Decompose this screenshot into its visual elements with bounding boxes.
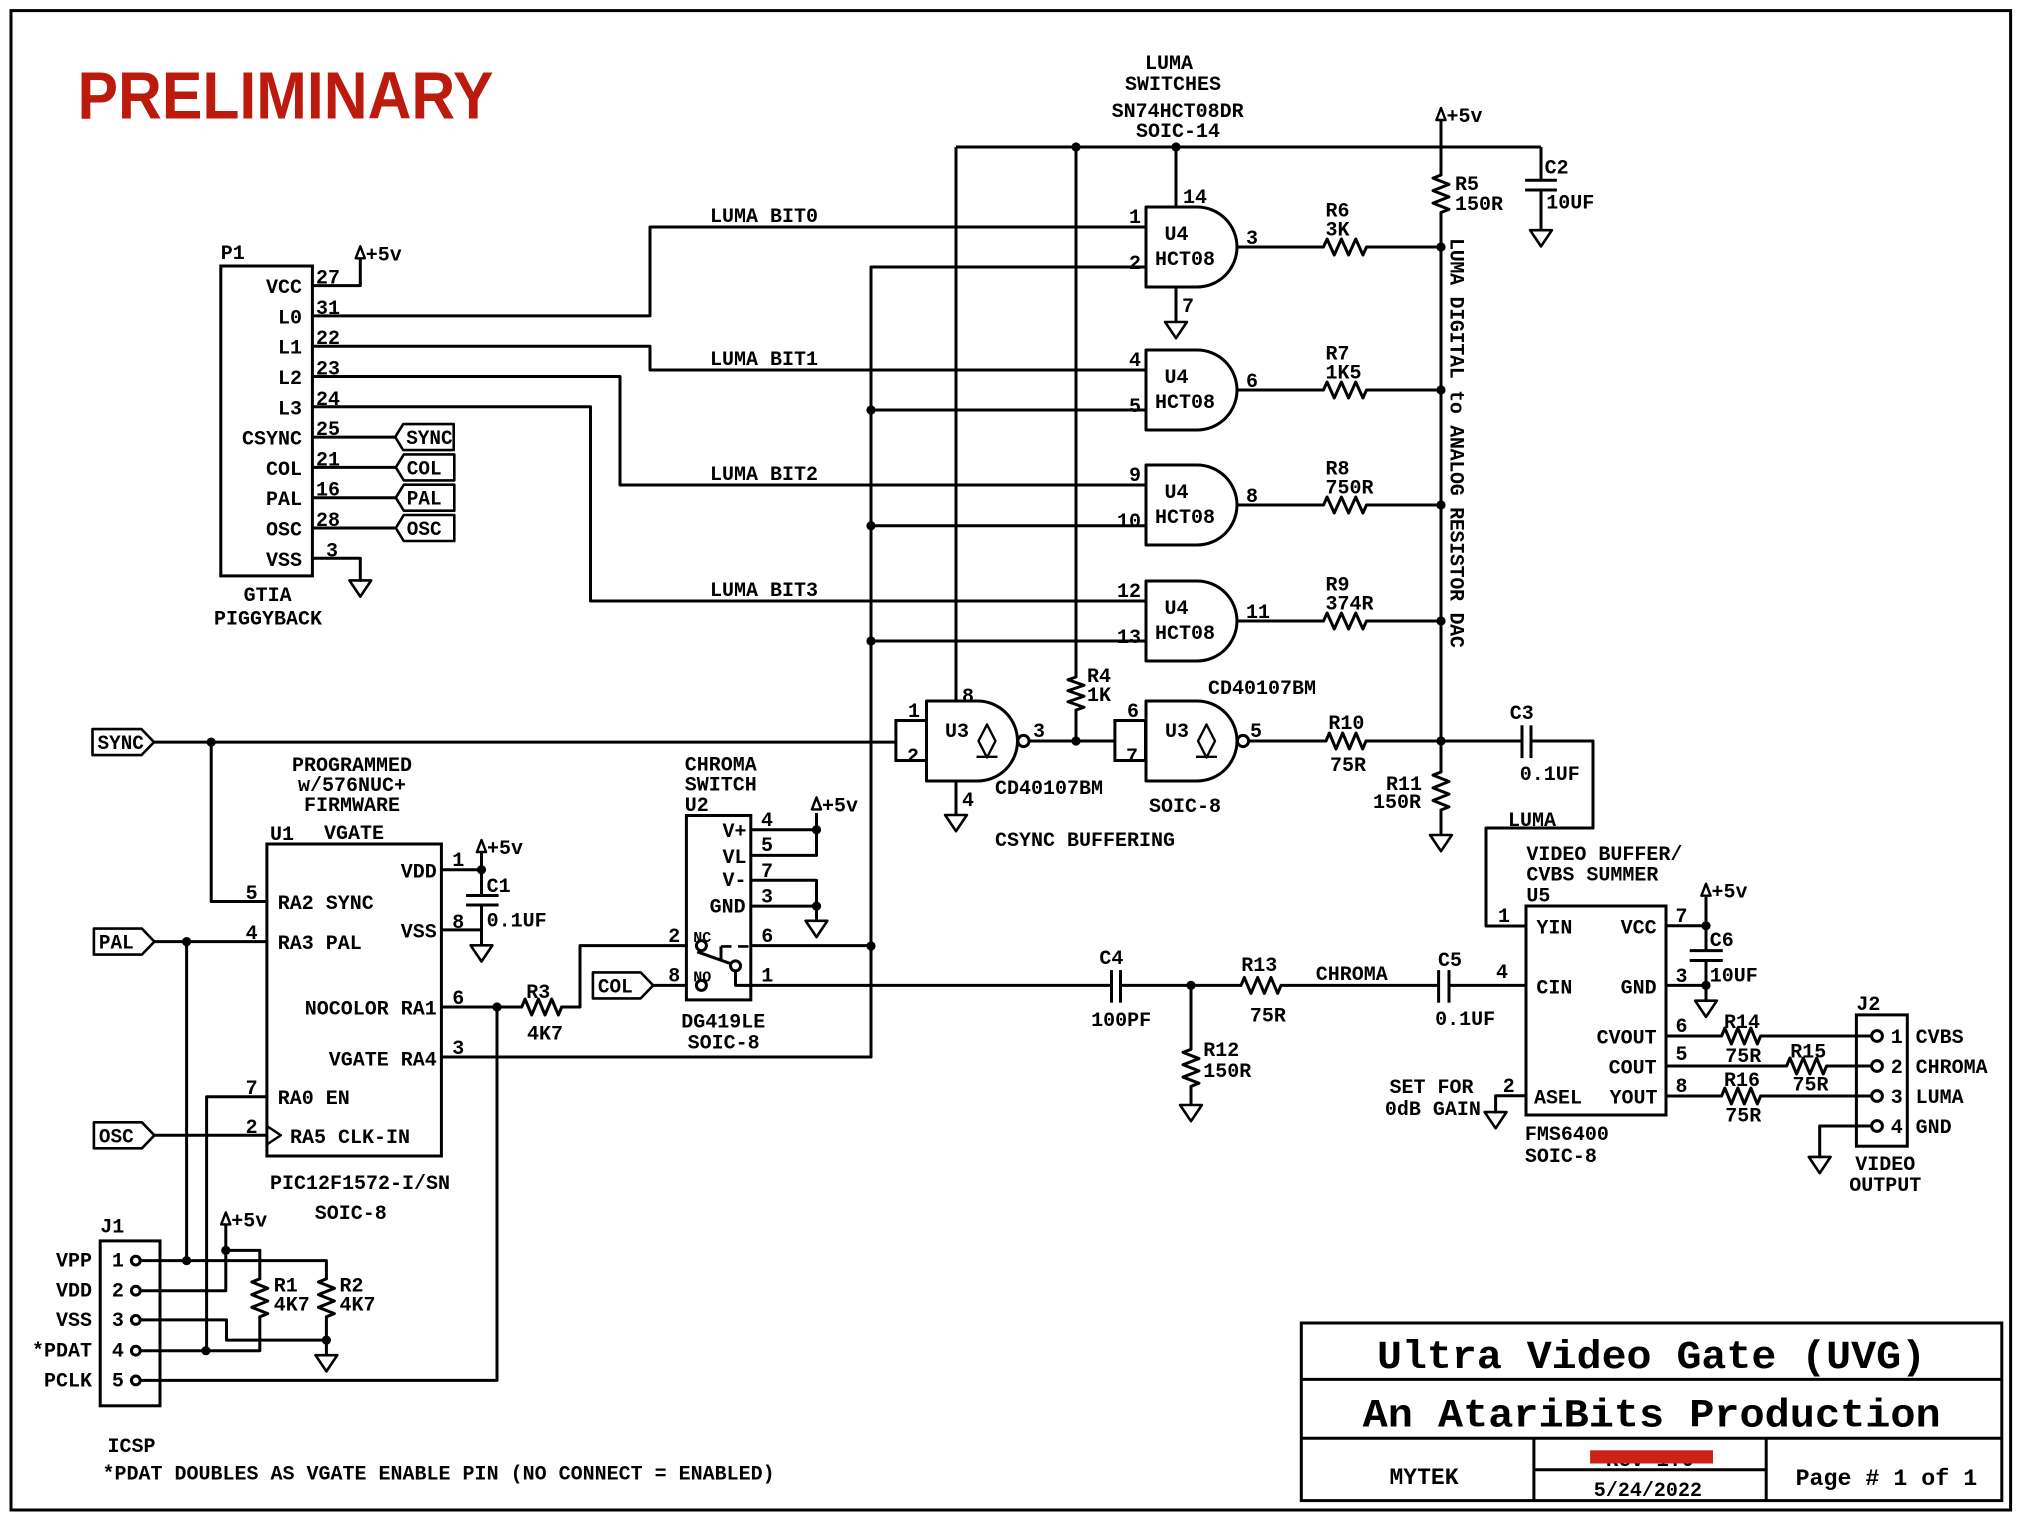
AND gate U4 D (HCT08) bbox=[1117, 581, 1270, 661]
resistor R3 4K7 bbox=[522, 982, 563, 1047]
svg-text:+5v: +5v bbox=[1712, 882, 1748, 905]
svg-text:ICSP: ICSP bbox=[108, 1436, 156, 1459]
svg-text:SET FOR: SET FOR bbox=[1390, 1077, 1474, 1100]
+5v symbol on top rail bbox=[1436, 106, 1482, 175]
ground at J2 bbox=[1809, 1157, 1831, 1173]
wire R3 to U2 pin 2 NC bbox=[562, 946, 687, 1007]
svg-text:SWITCH: SWITCH bbox=[685, 774, 757, 797]
svg-text:C6: C6 bbox=[1710, 930, 1734, 953]
flag PAL input bbox=[94, 929, 154, 956]
svg-text:5: 5 bbox=[1250, 721, 1262, 744]
svg-text:0.1UF: 0.1UF bbox=[1435, 1009, 1495, 1032]
svg-text:L3: L3 bbox=[278, 398, 302, 421]
svg-text:GND: GND bbox=[1916, 1117, 1952, 1140]
wire U4 pin 7 to ground bbox=[1176, 287, 1194, 322]
junction U5 VCC / C6 bbox=[1701, 921, 1710, 930]
connector P1 (GTIA piggyback) bbox=[214, 243, 340, 632]
svg-text:6: 6 bbox=[1127, 701, 1139, 724]
wire U4 output to R6 bbox=[1237, 246, 1324, 249]
svg-text:10UF: 10UF bbox=[1546, 192, 1594, 215]
svg-text:HCT08: HCT08 bbox=[1155, 507, 1215, 530]
svg-text:4: 4 bbox=[962, 790, 974, 813]
wire U4 pin 14 power bbox=[1176, 147, 1207, 210]
svg-text:SOIC-8: SOIC-8 bbox=[688, 1033, 760, 1056]
flag COL at P1 pin 21 bbox=[312, 454, 454, 481]
svg-text:CD40107BM: CD40107BM bbox=[995, 778, 1103, 801]
wire LUMA DAC bus vertical bbox=[1440, 246, 1443, 741]
wire U1 RA1 pin 6 to R3 bbox=[441, 1006, 521, 1009]
svg-text:Ultra Video Gate (UVG): Ultra Video Gate (UVG) bbox=[1377, 1336, 1926, 1381]
wire U2 pin 3 GND bbox=[751, 905, 817, 908]
svg-text:1: 1 bbox=[1891, 1027, 1903, 1050]
svg-text:GND: GND bbox=[1621, 978, 1657, 1001]
resistor R1 4K7 bbox=[252, 1276, 310, 1318]
title text An AtariBits Production bbox=[1363, 1395, 1941, 1440]
AND gate U4 C (HCT08) bbox=[1117, 465, 1258, 545]
NAND buffer U3 A body bbox=[927, 701, 1030, 781]
svg-text:5: 5 bbox=[1129, 396, 1141, 419]
svg-text:10UF: 10UF bbox=[1710, 966, 1758, 989]
svg-text:R3: R3 bbox=[526, 982, 550, 1005]
svg-text:RA0 EN: RA0 EN bbox=[278, 1088, 350, 1111]
wire P1 VCC pin 27 to +5v bbox=[312, 259, 360, 286]
note *PDAT DOUBLES AS VGATE ENABLE PIN bbox=[103, 1464, 775, 1487]
svg-text:9: 9 bbox=[1129, 465, 1141, 488]
svg-text:CVBS: CVBS bbox=[1916, 1027, 1964, 1050]
flag COL input bbox=[593, 972, 653, 999]
svg-text:PAL: PAL bbox=[407, 489, 442, 512]
wire +5v to R1 top bbox=[226, 1250, 260, 1278]
IC U5 FMS6400 body bbox=[1498, 844, 1688, 1169]
wire COL flag to U2 pin 8 NO bbox=[653, 984, 686, 987]
resistor R5 150R bbox=[1433, 174, 1503, 246]
svg-text:Page # 1 of 1: Page # 1 of 1 bbox=[1796, 1466, 1978, 1492]
svg-text:LUMA BIT0: LUMA BIT0 bbox=[710, 206, 818, 229]
capacitor C4 100PF bbox=[1091, 948, 1151, 1033]
wire VGATE column (RA4 to U4 B-inputs and U2 pin 6) bbox=[871, 267, 1146, 1057]
svg-text:4: 4 bbox=[1496, 962, 1508, 985]
svg-text:+5v: +5v bbox=[487, 838, 523, 861]
junction VPP / PAL column bbox=[182, 1256, 191, 1265]
svg-text:OUTPUT: OUTPUT bbox=[1849, 1175, 1921, 1198]
svg-text:4K7: 4K7 bbox=[274, 1295, 310, 1318]
wire PAL to U1 RA3 pin 4 bbox=[154, 940, 267, 943]
svg-text:3: 3 bbox=[1033, 721, 1045, 744]
svg-text:CVBS SUMMER: CVBS SUMMER bbox=[1526, 865, 1658, 888]
capacitor C2 10UF bbox=[1525, 147, 1594, 230]
svg-text:31: 31 bbox=[316, 298, 340, 321]
svg-text:75R: 75R bbox=[1250, 1006, 1286, 1029]
junction VGATE at U4C pin 10 bbox=[866, 521, 875, 530]
svg-text:2: 2 bbox=[907, 746, 919, 769]
svg-text:VCC: VCC bbox=[266, 277, 302, 300]
AND gate U4 B (HCT08) bbox=[1129, 350, 1258, 430]
+5v symbol at U2 bbox=[812, 795, 858, 818]
svg-text:PIC12F1572-I/SN: PIC12F1572-I/SN bbox=[270, 1173, 450, 1196]
svg-text:V+: V+ bbox=[722, 821, 746, 844]
svg-text:5: 5 bbox=[112, 1370, 124, 1393]
svg-text:27: 27 bbox=[316, 268, 340, 291]
wire LUMA BIT1 (P1 L1 pin 22 to U4B pin 4) bbox=[312, 346, 1146, 372]
junction U2 V- / GND bbox=[812, 902, 821, 911]
wire PAL branch down to J1 VPP bbox=[185, 942, 188, 1261]
junction DAC bus row 1 bbox=[1436, 242, 1445, 251]
resistor R7 1K5 bbox=[1324, 344, 1367, 398]
+5v symbol at P1 VCC bbox=[356, 244, 402, 267]
flag OSC input bbox=[94, 1122, 154, 1149]
wire U2 pin 4 V+ to +5v bbox=[751, 813, 817, 830]
svg-text:2: 2 bbox=[668, 926, 680, 949]
wire OSC to U1 RA5 pin 2 bbox=[154, 1134, 267, 1137]
junction PAL/VPP branch bbox=[182, 937, 191, 946]
svg-text:3: 3 bbox=[326, 540, 338, 563]
svg-text:MYTEK: MYTEK bbox=[1389, 1465, 1458, 1491]
wire U5 VCC pin 7 to +5v bbox=[1666, 897, 1706, 926]
svg-text:L1: L1 bbox=[278, 338, 302, 361]
capacitor C5 0.1UF bbox=[1435, 950, 1495, 1032]
svg-text:PCLK: PCLK bbox=[44, 1370, 92, 1393]
svg-text:0dB GAIN: 0dB GAIN bbox=[1385, 1099, 1481, 1122]
label CD40107BM for U3 A bbox=[995, 778, 1103, 801]
wire U2 pin 6 to VGATE column bbox=[751, 944, 871, 947]
svg-text:FMS6400: FMS6400 bbox=[1525, 1124, 1609, 1147]
svg-text:5: 5 bbox=[1676, 1044, 1688, 1067]
connector J2 video output bbox=[1856, 994, 1987, 1146]
svg-text:R13: R13 bbox=[1241, 955, 1277, 978]
NAND buffer U3 B input box pins 6,7 bbox=[1115, 701, 1146, 769]
svg-text:GND: GND bbox=[710, 897, 746, 920]
wire R6 to DAC bus bbox=[1367, 246, 1442, 249]
svg-text:VSS: VSS bbox=[56, 1310, 92, 1333]
svg-text:CHROMA: CHROMA bbox=[1916, 1057, 1988, 1080]
svg-text:C5: C5 bbox=[1438, 950, 1462, 973]
wire U3A output to U3B input bbox=[1029, 721, 1115, 744]
svg-text:DG419LE: DG419LE bbox=[681, 1012, 765, 1035]
svg-text:SOIC-8: SOIC-8 bbox=[1149, 796, 1221, 819]
svg-text:1K: 1K bbox=[1087, 685, 1111, 708]
capacitor C3 0.1UF bbox=[1441, 703, 1580, 787]
svg-text:LUMA BIT1: LUMA BIT1 bbox=[710, 349, 818, 372]
svg-text:150R: 150R bbox=[1373, 792, 1421, 815]
+5v symbol at U5 bbox=[1701, 882, 1747, 905]
svg-text:VCC: VCC bbox=[1621, 918, 1657, 941]
AND gate U4 A (HCT08) bbox=[1129, 207, 1258, 287]
redacted revision bar bbox=[1590, 1450, 1713, 1473]
svg-text:R15: R15 bbox=[1790, 1042, 1826, 1065]
ground below R2 bbox=[316, 1340, 338, 1371]
wire LUMA BIT0 (P1 L0 pin 31 to U4A pin 1) bbox=[312, 206, 1146, 316]
svg-text:24: 24 bbox=[316, 389, 340, 412]
svg-text:R10: R10 bbox=[1328, 713, 1364, 736]
svg-text:+5v: +5v bbox=[1447, 106, 1483, 129]
svg-text:U4: U4 bbox=[1164, 482, 1188, 505]
wire J1 VSS to ground rail bbox=[140, 1320, 326, 1340]
svg-text:7: 7 bbox=[1126, 746, 1138, 769]
svg-text:2: 2 bbox=[112, 1281, 124, 1304]
svg-text:CVOUT: CVOUT bbox=[1597, 1028, 1657, 1051]
resistor R2 4K7 bbox=[318, 1276, 375, 1318]
svg-text:RA3 PAL: RA3 PAL bbox=[278, 933, 362, 956]
+5v symbol at U1 VDD bbox=[477, 838, 523, 861]
svg-text:COL: COL bbox=[598, 976, 633, 999]
svg-text:4: 4 bbox=[112, 1341, 124, 1364]
title text date 5/24/2022 bbox=[1594, 1480, 1702, 1503]
junction RA1 / PCLK branch bbox=[492, 1002, 501, 1011]
wire U2 pin 1 to C4 bbox=[751, 984, 1112, 987]
wire U1 RA0 pin 7 to J1 *PDAT bbox=[207, 1097, 267, 1351]
ground at U1 VSS bbox=[471, 945, 493, 961]
svg-text:LUMA: LUMA bbox=[1916, 1087, 1964, 1110]
svg-text:PIGGYBACK: PIGGYBACK bbox=[214, 609, 322, 632]
title text Ultra Video Gate (UVG) bbox=[1377, 1336, 1926, 1381]
wire U5 COUT pin 5 to R15 bbox=[1666, 1065, 1787, 1068]
wire J1 VPP to R2 bbox=[140, 1261, 326, 1279]
svg-text:CIN: CIN bbox=[1536, 978, 1572, 1001]
svg-text:4: 4 bbox=[1891, 1117, 1903, 1140]
svg-text:VDD: VDD bbox=[401, 861, 437, 884]
svg-text:SOIC-8: SOIC-8 bbox=[1525, 1146, 1597, 1169]
svg-text:SWITCHES: SWITCHES bbox=[1125, 74, 1221, 97]
svg-text:VPP: VPP bbox=[56, 1251, 92, 1274]
svg-text:22: 22 bbox=[316, 328, 340, 351]
wire +5v top rail bbox=[956, 146, 1541, 149]
wire R2 bottom to ground junction bbox=[325, 1317, 328, 1340]
title text MYTEK bbox=[1389, 1465, 1458, 1491]
svg-text:PAL: PAL bbox=[266, 489, 302, 512]
svg-text:HCT08: HCT08 bbox=[1155, 249, 1215, 272]
label VIDEO OUTPUT bbox=[1849, 1154, 1921, 1198]
wire U1 RA4 pin 3 to VGATE column bbox=[441, 1056, 871, 1059]
svg-text:J2: J2 bbox=[1856, 994, 1880, 1017]
wire LUMA BIT3 (P1 L3 pin 24 to U4D pin 12) bbox=[312, 407, 1146, 603]
junction ground rail at R2 bbox=[322, 1336, 331, 1345]
svg-text:LUMA DIGITAL to ANALOG RESISTO: LUMA DIGITAL to ANALOG RESISTOR DAC bbox=[1444, 238, 1467, 648]
svg-text:150R: 150R bbox=[1203, 1061, 1251, 1084]
wire U5 YOUT pin 8 to R16 bbox=[1666, 1095, 1722, 1098]
svg-text:OSC: OSC bbox=[407, 519, 442, 542]
svg-text:4K7: 4K7 bbox=[527, 1024, 563, 1047]
wire U4 output to R7 bbox=[1237, 389, 1324, 392]
svg-text:3K: 3K bbox=[1326, 219, 1350, 242]
resistor R15 75R bbox=[1787, 1042, 1829, 1098]
wire U4 output to R8 bbox=[1237, 504, 1324, 507]
wire U3B output pin 5 to R10 bbox=[1249, 721, 1326, 744]
svg-text:NOCOLOR RA1: NOCOLOR RA1 bbox=[305, 999, 437, 1022]
svg-text:13: 13 bbox=[1117, 627, 1141, 650]
svg-text:CSYNC: CSYNC bbox=[242, 429, 302, 452]
flag SYNC source bbox=[93, 729, 155, 756]
resistor R13 75R bbox=[1241, 955, 1286, 1029]
header text LUMA SWITCHES SN74HCT08DR SOIC-14 bbox=[1112, 53, 1244, 144]
resistor R8 750R bbox=[1324, 459, 1374, 513]
flag PAL at P1 pin 16 bbox=[312, 485, 454, 512]
svg-text:4: 4 bbox=[1129, 350, 1141, 373]
wire SYNC to U1 RA2 pin 5 bbox=[211, 742, 267, 901]
svg-text:U4: U4 bbox=[1164, 598, 1188, 621]
svg-text:CHROMA: CHROMA bbox=[1316, 964, 1388, 987]
resistor R12 150R bbox=[1183, 985, 1251, 1105]
svg-text:RA2 SYNC: RA2 SYNC bbox=[278, 893, 374, 916]
resistor R9 374R bbox=[1324, 575, 1374, 629]
svg-text:2: 2 bbox=[1129, 253, 1141, 276]
svg-text:SOIC-8: SOIC-8 bbox=[315, 1203, 387, 1226]
svg-text:1: 1 bbox=[112, 1251, 124, 1274]
svg-text:R16: R16 bbox=[1724, 1070, 1760, 1093]
svg-text:VSS: VSS bbox=[401, 922, 437, 945]
svg-text:14: 14 bbox=[1183, 187, 1207, 210]
junction U2 V+ / VL bbox=[812, 825, 821, 834]
flag SYNC at P1 CSYNC pin 25 bbox=[312, 424, 453, 451]
svg-text:1K5: 1K5 bbox=[1326, 362, 1362, 385]
+5v symbol at R1 bbox=[221, 1210, 267, 1250]
wire R15 to J2 pin 2 bbox=[1827, 1065, 1872, 1068]
junction VGATE at U4B pin 5 bbox=[866, 405, 875, 414]
svg-text:U3: U3 bbox=[945, 721, 969, 744]
svg-text:VGATE: VGATE bbox=[324, 823, 384, 846]
svg-text:FIRMWARE: FIRMWARE bbox=[304, 795, 400, 818]
svg-text:1: 1 bbox=[908, 701, 920, 724]
label SOIC-8 for U3 B bbox=[1149, 796, 1221, 819]
wire J1 VDD to +5v bbox=[140, 1250, 226, 1290]
junction on rail at R4 column bbox=[1071, 142, 1080, 151]
label CSYNC BUFFERING bbox=[995, 830, 1175, 853]
svg-text:An AtariBits Production: An AtariBits Production bbox=[1363, 1395, 1941, 1440]
junction DAC bus row 4 bbox=[1436, 616, 1445, 625]
svg-text:3: 3 bbox=[112, 1310, 124, 1333]
analog switch U2 DG419LE body bbox=[668, 755, 773, 1056]
resistor R6 3K bbox=[1324, 201, 1367, 255]
svg-text:U1: U1 bbox=[270, 824, 294, 847]
wire U1 VSS pin 8 to ground bbox=[441, 930, 481, 945]
svg-text:HCT08: HCT08 bbox=[1155, 392, 1215, 415]
wire J2 pin 4 GND to ground bbox=[1820, 1126, 1872, 1157]
wire R13 to C5 with CHROMA label bbox=[1281, 964, 1439, 987]
svg-text:J1: J1 bbox=[100, 1217, 124, 1240]
connector J1 ICSP bbox=[32, 1217, 160, 1459]
svg-text:CD40107BM: CD40107BM bbox=[1208, 678, 1316, 701]
svg-text:*PDAT DOUBLES AS VGATE ENABLE: *PDAT DOUBLES AS VGATE ENABLE PIN (NO CO… bbox=[103, 1464, 775, 1487]
resistor R14 75R bbox=[1722, 1012, 1762, 1069]
svg-text:10: 10 bbox=[1117, 511, 1141, 534]
svg-text:PRELIMINARY: PRELIMINARY bbox=[78, 59, 494, 134]
svg-text:VGATE RA4: VGATE RA4 bbox=[329, 1050, 437, 1073]
svg-text:OSC: OSC bbox=[99, 1126, 134, 1149]
wire U4 output to R9 bbox=[1237, 620, 1324, 623]
svg-text:8: 8 bbox=[962, 686, 974, 709]
junction U5 GND / C6 bbox=[1701, 981, 1710, 990]
svg-text:0.1UF: 0.1UF bbox=[1520, 764, 1580, 787]
svg-text:V-: V- bbox=[722, 870, 746, 893]
svg-text:SYNC: SYNC bbox=[406, 428, 452, 451]
svg-text:C4: C4 bbox=[1099, 948, 1123, 971]
wire U3 pin 4 to ground bbox=[956, 781, 974, 815]
svg-text:2: 2 bbox=[1891, 1057, 1903, 1080]
svg-text:C2: C2 bbox=[1545, 158, 1569, 181]
svg-text:SYNC: SYNC bbox=[98, 733, 144, 756]
svg-text:+5v: +5v bbox=[822, 795, 858, 818]
svg-text:LUMA BIT3: LUMA BIT3 bbox=[710, 580, 818, 603]
wire R8 to DAC bus bbox=[1367, 504, 1442, 507]
wire U2 pin 5 VL bbox=[751, 830, 817, 856]
junction U3A output with R4 bbox=[1071, 736, 1080, 745]
ground at U4 pin 7 bbox=[1165, 322, 1187, 338]
wire C4 to R13 bbox=[1121, 984, 1242, 987]
svg-text:COL: COL bbox=[266, 459, 302, 482]
wire SYNC to U3A input bbox=[154, 741, 896, 744]
svg-text:8: 8 bbox=[452, 912, 464, 935]
junction SYNC to U1 RA2 branch bbox=[207, 738, 216, 747]
ground at U5 GND bbox=[1695, 985, 1717, 1017]
wire U1 VDD pin 1 to +5v bbox=[441, 853, 481, 870]
svg-text:L2: L2 bbox=[278, 368, 302, 391]
svg-text:P1: P1 bbox=[221, 243, 245, 266]
wire U2 pin 7 V- to ground rail bbox=[751, 880, 817, 906]
svg-text:0.1UF: 0.1UF bbox=[487, 911, 547, 934]
svg-text:LUMA BIT2: LUMA BIT2 bbox=[710, 464, 818, 487]
svg-text:374R: 374R bbox=[1326, 593, 1374, 616]
svg-text:+5v: +5v bbox=[366, 244, 402, 267]
junction U1 VDD / C1 bbox=[477, 865, 486, 874]
svg-text:75R: 75R bbox=[1330, 755, 1366, 778]
wire LUMA from C3 to U5 YIN bbox=[1486, 741, 1593, 926]
junction VGATE at U2 pin 6 bbox=[866, 941, 875, 950]
svg-text:U2: U2 bbox=[685, 795, 709, 818]
svg-text:1: 1 bbox=[1498, 906, 1510, 929]
svg-text:VDD: VDD bbox=[56, 1281, 92, 1304]
svg-text:U4: U4 bbox=[1164, 224, 1188, 247]
wire U5 ASEL pin 2 to ground bbox=[1496, 1096, 1526, 1112]
svg-text:R12: R12 bbox=[1203, 1040, 1239, 1063]
svg-text:VL: VL bbox=[722, 847, 746, 870]
wire R14 to J2 pin 1 bbox=[1761, 1035, 1872, 1038]
svg-text:4K7: 4K7 bbox=[340, 1295, 376, 1318]
resistor R10 75R bbox=[1326, 713, 1366, 778]
wire R9 to DAC bus bbox=[1367, 620, 1442, 623]
svg-text:YIN: YIN bbox=[1536, 918, 1572, 941]
wire P1 VSS pin 3 to ground bbox=[312, 558, 360, 580]
wire RA1 branch to J1 PCLK bbox=[140, 1007, 497, 1380]
svg-text:750R: 750R bbox=[1326, 477, 1374, 500]
svg-text:75R: 75R bbox=[1793, 1075, 1829, 1098]
svg-text:C3: C3 bbox=[1510, 703, 1534, 726]
resistor R11 150R bbox=[1373, 741, 1449, 835]
svg-text:VSS: VSS bbox=[266, 550, 302, 573]
svg-text:GTIA: GTIA bbox=[244, 585, 292, 608]
svg-text:VIDEO: VIDEO bbox=[1855, 1154, 1915, 1177]
capacitor C1 0.1UF bbox=[466, 870, 547, 934]
junction VGATE at U4D pin 13 bbox=[866, 636, 875, 645]
title block frame bbox=[1301, 1323, 2002, 1501]
NAND buffer U3 A (CD40107BM) input box pins 1,2 bbox=[896, 701, 927, 769]
net label LUMA DIGITAL to ANALOG RESISTOR DAC bbox=[1444, 238, 1467, 648]
net label LUMA bbox=[1508, 810, 1556, 833]
resistor R4 1K pullup bbox=[1068, 147, 1111, 741]
svg-text:75R: 75R bbox=[1725, 1105, 1761, 1128]
flag OSC at P1 pin 28 bbox=[312, 515, 454, 542]
PRELIMINARY watermark text bbox=[78, 59, 494, 134]
ground at R11 bbox=[1430, 835, 1452, 851]
junction on rail at U4 pin 14 column bbox=[1171, 142, 1180, 151]
svg-text:1: 1 bbox=[1129, 207, 1141, 230]
svg-text:YOUT: YOUT bbox=[1609, 1088, 1657, 1111]
svg-text:23: 23 bbox=[316, 359, 340, 382]
junction *PDAT / RA0 bbox=[201, 1346, 210, 1355]
svg-text:COUT: COUT bbox=[1609, 1058, 1657, 1081]
wire U5 CVOUT pin 6 to R14 bbox=[1666, 1035, 1722, 1038]
svg-text:U4: U4 bbox=[1164, 367, 1188, 390]
svg-text:LUMA: LUMA bbox=[1508, 810, 1556, 833]
svg-text:OSC: OSC bbox=[266, 520, 302, 543]
